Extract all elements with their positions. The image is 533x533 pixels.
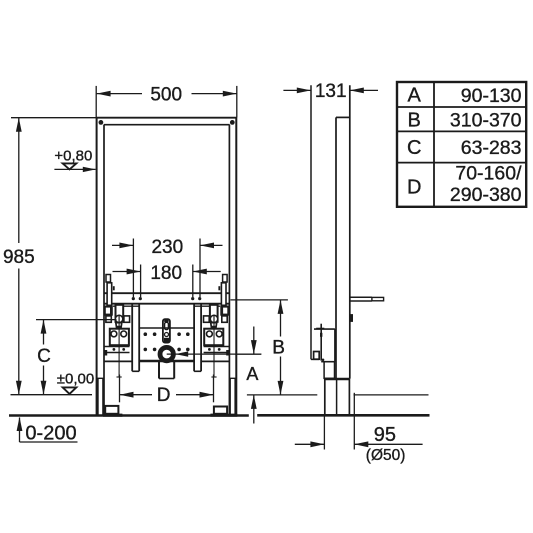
arrow B bottom [278,381,284,395]
arrow B top [278,300,284,314]
dim D line [120,394,153,396]
side view leg bottom thick line [324,378,350,380]
dim 0-200 underline [20,441,78,443]
svg-text:D: D [157,385,171,406]
svg-text:C: C [37,346,51,367]
arrow +0,80 [83,167,96,172]
arrow 0-200 [17,417,23,431]
table divider vertical [433,82,435,207]
dim B line [280,300,282,337]
corner screw dot right [230,120,235,125]
arrow 230 right [200,243,214,249]
side view profile top [336,116,350,118]
svg-text:D: D [407,177,421,199]
lower crossmember right [201,360,229,362]
dim 95 line [295,443,325,445]
svg-text:B: B [408,109,421,131]
svg-text:500: 500 [150,84,182,105]
outlet pipe below [158,361,160,379]
dim 985 line [18,118,20,243]
left upper tab [106,275,111,283]
svg-text:310-370: 310-370 [450,109,522,131]
side view bracket notch [314,352,320,360]
outlet leader line [167,353,262,355]
left body [110,329,129,346]
left threaded rod [118,323,120,378]
arrow 95 right [354,441,368,447]
arrow 131 right [350,88,364,94]
arrow C bottom [41,381,47,395]
TABLE [397,82,526,207]
dim A arrows tails [253,327,255,355]
SIDE VIEW [311,85,384,414]
svg-text:90-130: 90-130 [461,85,522,107]
TABLE TEXT [407,85,422,199]
dim 500 line [97,93,142,95]
outlet circle [160,347,173,360]
arrow 180 left [127,269,141,275]
frame left outer vertical [96,118,98,415]
svg-text:(Ø50): (Ø50) [366,447,406,464]
mounting plate [139,327,194,329]
right funnel [211,323,217,329]
level line right segment [354,394,429,396]
right upright [210,305,218,322]
dim 95 ext line left [323,417,325,450]
dim B top ref line [231,299,288,301]
right edge fastening [220,306,229,316]
svg-text:131: 131 [315,81,347,102]
left base plate line [103,414,122,417]
right leg foot tube junction [229,377,236,379]
table row line 1 [397,106,526,108]
svg-text:A: A [408,85,422,107]
right body [204,329,223,346]
arrow 985 bottom [16,381,22,395]
right base plate line [210,414,237,417]
arrow 180 right [193,269,207,275]
corner screw dot left [99,120,104,125]
side view tab [350,314,353,322]
left rail [131,304,133,372]
side view bracket top line [314,328,335,330]
dim 230 ext lines [132,239,134,298]
right foot plate [214,407,227,414]
dim 500 extension lines [95,86,97,118]
crossbar [104,292,229,294]
svg-text:B: B [272,338,285,359]
floor line left segment [9,414,249,417]
svg-text:230: 230 [151,237,183,258]
dim 0-200 arrow tail [19,418,21,443]
arrow A bottom [251,395,257,409]
left foot plate [105,406,118,414]
central slot piece [163,319,170,342]
dim 180 line [113,271,141,273]
dim 230 line [112,244,133,246]
right threaded rod [213,323,215,378]
arrow 95 left [310,441,324,447]
side view profile right edge [349,85,351,379]
left lower band [104,346,130,348]
side view bracket rod [320,324,322,361]
right lower band [204,346,230,348]
left upright [116,305,124,322]
table row line 2 [397,130,526,132]
svg-text:0-200: 0-200 [25,423,76,445]
plate hole dots [144,332,148,336]
dim 95 ext line right (drain axis) [353,393,355,450]
svg-text:C: C [407,137,421,159]
sub-crossbar line left [113,305,139,307]
left clamp pads [106,316,111,322]
table border [397,82,526,207]
side view bracket right edge [334,329,336,362]
table row line 3 [397,162,526,164]
arrow D left [120,392,134,398]
arrow 230 left [119,243,133,249]
arrow 131 left [297,88,311,94]
crossbar bolt dots [132,297,135,300]
arrow 500 right [223,91,237,97]
dim C line [43,320,45,345]
dim 131 line [283,89,310,91]
svg-text:180: 180 [150,263,182,284]
dim D ext lines [119,375,121,403]
left funnel [116,323,122,329]
right clamp pads [204,316,210,322]
arrow 500 left [97,91,111,97]
level 0,00 line [11,394,93,396]
svg-text:95: 95 [374,424,396,446]
side view front face line [310,85,312,359]
sub-crossbar line right [194,305,220,307]
side view bracket lower step [324,362,334,379]
left edge fastening [104,306,113,316]
arrow A top [251,340,257,354]
side view arm [350,296,372,298]
lower crossmember left [104,360,132,362]
left leg foot tube junction [97,377,104,379]
svg-text:+0,80: +0,80 [54,147,92,164]
right rail [193,304,195,372]
frame right outer vertical [235,118,237,415]
right upper tab [223,275,228,283]
arrow D right [200,392,214,398]
dim B bottom ref line [247,394,317,396]
DIMENSIONS [11,86,429,450]
dim 180 ext lines [140,265,142,298]
level +0,80 line [54,168,95,170]
side view foot [324,379,326,415]
side view front face bottom [311,358,319,360]
floor line right segment [257,414,429,417]
frame left inner vertical [103,125,105,415]
dim 985 top ref [11,117,96,119]
svg-text:985: 985 [3,247,35,268]
arrow C top [41,320,47,334]
dim A upper ref line [235,353,261,355]
side view bracket step line [321,361,335,363]
level triangle +0,80 [63,163,77,169]
frame right inner vertical [228,125,230,415]
frame top outer line [96,117,237,119]
dim C top ref line [36,319,117,321]
arrow 985 top [16,118,22,132]
svg-text:A: A [246,364,258,384]
left black tab [104,350,107,356]
arrow outlet leader [175,351,188,356]
left clamp bolt [115,315,122,322]
right black tab [226,350,229,356]
frame top inner line [104,124,230,126]
svg-text:290-380: 290-380 [450,184,522,206]
ARROWHEADS [16,88,368,448]
svg-text:±0,00: ±0,00 [57,371,94,388]
svg-text:70-160/: 70-160/ [455,163,522,185]
svg-text:63-283: 63-283 [461,137,522,159]
right clamp bolt [210,315,217,322]
level triangle 0,00 [63,387,77,394]
side view profile left edge [335,117,337,378]
